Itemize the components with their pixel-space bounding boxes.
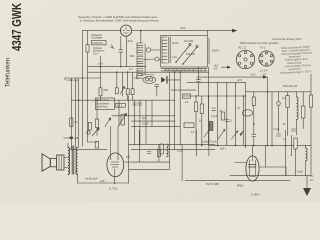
node dots bus145 [201, 145, 297, 147]
main bus y66.6 [88, 66, 147, 68]
IF transformer T1 comb c [137, 69, 144, 79]
svg-text:1 2 3 4: 1 2 3 4 [260, 69, 268, 73]
small boxed label [116, 103, 126, 107]
svg-text:+0,5: +0,5 [237, 79, 242, 82]
cap under pointer [155, 84, 159, 86]
cap C10 [277, 134, 281, 136]
svg-text:1,9A: 1,9A [172, 56, 177, 59]
wire vert x132.6 [132, 72, 134, 89]
node bus145 b [285, 145, 287, 147]
node y78 [82, 77, 84, 79]
output transformer core [72, 146, 74, 174]
wire vert x116.8 [116, 72, 118, 88]
svg-text:µ30: µ30 [74, 137, 79, 140]
svg-text:8kΩ: 8kΩ [104, 89, 109, 92]
wire vert x169.6 [169, 72, 171, 169]
wire vert x296.5 low [296, 119, 298, 135]
pot cluster arrow [92, 128, 99, 136]
right column resistor R6 [286, 96, 289, 108]
mains transformer winding [162, 37, 167, 63]
wire vert x265.3 [264, 145, 266, 167]
wire y142 [88, 141, 97, 143]
mains transformer box [161, 36, 208, 68]
svg-text:0,1µF: 0,1µF [177, 150, 184, 153]
pot P3 arrow [218, 130, 225, 139]
resistor Rc [115, 88, 118, 94]
wire vert x301 low [295, 149, 297, 176]
tube socket S1 [236, 50, 254, 68]
switch contact a [189, 43, 191, 45]
resistor R4b [200, 104, 203, 114]
capacitor C3 [138, 103, 142, 105]
dial scale ticks [165, 69, 205, 71]
svg-text:Drucktaste: Drucktaste [92, 37, 104, 40]
capacitor C1 [119, 50, 123, 52]
pot cluster circle [87, 131, 90, 134]
svg-text:niederfreq: niederfreq [97, 106, 108, 109]
wire comb to box [151, 49, 161, 51]
svg-text:4,6k: 4,6k [100, 180, 105, 183]
node dots bus96 [195, 95, 244, 97]
node x253.8 [253, 123, 255, 125]
wire vert x285.7 [285, 130, 287, 176]
pot arrow extra [105, 118, 111, 127]
wire R13 top [96, 100, 98, 119]
node bus y72.2 a [116, 71, 118, 73]
resistor Re [131, 89, 134, 95]
svg-text:VCL 11: VCL 11 [238, 47, 247, 50]
wire y149.7 [71, 149, 108, 151]
wire vert x286 low [285, 167, 287, 176]
wire vert x127.7 [127, 72, 129, 89]
cap C6 [69, 137, 73, 140]
cap on x198 [196, 80, 200, 82]
pot cluster rect [88, 123, 91, 131]
V3 internals [249, 156, 255, 177]
svg-text:U 80A: U 80A [251, 193, 259, 197]
svg-text:in Stellung: Betriebsdaten 220: in Stellung: Betriebsdaten 220V Gleichsp… [80, 18, 160, 22]
resistor R4 [194, 102, 197, 112]
pot P1 arrow [119, 113, 127, 126]
wire vert x278.5 [278, 92, 280, 133]
capacitor C8 [292, 129, 296, 131]
node bus y72.2 b [127, 71, 129, 73]
dial lamps ellipse [143, 76, 156, 83]
bus y96 [183, 95, 246, 97]
pot P2 arrow [204, 128, 211, 137]
small circle component [277, 102, 281, 106]
resistor Rb [99, 88, 102, 96]
dial scale line top [161, 68, 207, 70]
trimmer wedge tube [240, 130, 245, 136]
wire y115.8 [112, 115, 175, 117]
svg-text:Netz: Netz [180, 26, 186, 30]
wire vert x217.7 [217, 82, 219, 145]
bus y145.4 [210, 144, 311, 146]
resistor R12 [302, 106, 305, 118]
svg-text:U 72A: U 72A [109, 186, 117, 190]
slant wire comb to box [144, 59, 161, 61]
wire Rb down [100, 96, 102, 101]
wire sec bottom [77, 175, 79, 184]
boxed label b [184, 123, 194, 128]
wire y169.3 [129, 168, 170, 170]
V2 internals [110, 153, 120, 177]
bus y91.8 [246, 91, 311, 93]
wire vert x152 [151, 100, 153, 126]
right resistor R7 [309, 95, 312, 107]
svg-text:0,05µF 0,1µF: 0,05µF 0,1µF [202, 141, 217, 144]
svg-text:Gleichrichter Einweg 220V: Gleichrichter Einweg 220V [272, 38, 302, 41]
coil L2 [167, 144, 169, 157]
wire y162.1 [125, 161, 170, 163]
wire V2 top a [110, 126, 112, 153]
svg-text:Skalenlampen: Skalenlampen [141, 74, 156, 76]
resistor R11 [160, 144, 163, 154]
V2 grid dashes [111, 162, 119, 167]
wire vert x196.4 [195, 130, 197, 156]
svg-text:UKW Ant: UKW Ant [93, 42, 103, 45]
wire V2 top b [117, 126, 119, 153]
node y73.8 b [179, 71, 181, 73]
wire vert x226.8 [226, 82, 228, 145]
wire vert x128.6 [128, 96, 130, 183]
speaker magnet [57, 155, 64, 170]
wire vert x146 [145, 100, 147, 144]
switch contact b [196, 45, 198, 47]
svg-text:0,1µF: 0,1µF [274, 129, 281, 131]
wire vert x208.6 [208, 96, 210, 145]
junction transformer top [207, 31, 209, 35]
node y91.8 [267, 91, 269, 93]
node y100 b [96, 99, 98, 101]
svg-text:Telefunken: Telefunken [5, 58, 11, 87]
svg-text:VY 2: VY 2 [260, 47, 266, 50]
svg-text:PHT0,7HB: PHT0,7HB [206, 182, 219, 186]
dial scale line bottom [161, 70, 207, 72]
wire y85.5 [187, 81, 246, 83]
svg-text:0,1µF: 0,1µF [297, 172, 304, 174]
svg-text:5µF +: 5µF + [220, 148, 227, 151]
svg-text:Netztr: Netztr [172, 42, 178, 45]
wire Re down [132, 95, 134, 101]
wire vert x207 [208, 67, 210, 145]
bottom bus left [78, 182, 129, 184]
wire vert x122.3 [121, 72, 123, 96]
wire vert x267.5 [267, 77, 269, 145]
wire vert x78.6 [78, 78, 80, 148]
hatched resistor b [221, 112, 224, 120]
wire vert x235.6 [235, 82, 237, 145]
wire vert x112 [111, 45, 115, 49]
wire top bus right [132, 30, 233, 32]
wire vert x243.5 [243, 96, 245, 145]
svg-text:Skala und Beleuchtung gem 20: Skala und Beleuchtung gem 20 [165, 68, 196, 71]
wire vert x196 [195, 96, 197, 145]
wire vert x139.9 [139, 100, 141, 145]
wire vert x201.8 [201, 96, 203, 145]
right resistor R8 [294, 138, 297, 149]
wire vert x120.8 [120, 36, 122, 66]
wire comb top [140, 31, 142, 43]
wire L3 bottom [305, 161, 307, 176]
wire y90 seg [171, 89, 196, 91]
svg-text:150 220: 150 220 [186, 53, 196, 56]
svg-text:220V~: 220V~ [212, 49, 221, 53]
wire vert x182.1 [181, 144, 183, 180]
wire y126.3 [131, 125, 180, 127]
wire vert x119 [118, 100, 120, 126]
V3 anode bars [249, 165, 257, 168]
note box mid-left [96, 98, 115, 110]
wire vert x82.5 [82, 31, 84, 146]
svg-text:Ctrl 3: Ctrl 3 [117, 104, 123, 107]
node y100 a [78, 99, 80, 101]
wire R13 bottom [96, 128, 98, 136]
right column cap C5 [252, 134, 256, 136]
svg-text:7AK: 7AK [129, 54, 134, 58]
pot P1 body [121, 115, 124, 126]
svg-text:0,1µF: 0,1µF [142, 122, 149, 126]
dial lamp 2 [150, 78, 153, 81]
output tube V2 [107, 153, 124, 177]
tube socket S2 [259, 51, 274, 66]
wire vert x180.2 [179, 72, 181, 145]
ground stem [306, 176, 308, 188]
IF transformer core [144, 44, 146, 75]
wire vert x245.6 [245, 82, 247, 148]
wire vert x293.5 [287, 92, 289, 96]
speaker coil box [50, 159, 56, 167]
svg-text:1,5kΩ geg: 1,5kΩ geg [67, 79, 79, 82]
wire Ra down [87, 52, 89, 142]
right column coil L1 [297, 97, 299, 119]
switch pivots [176, 62, 183, 64]
svg-text:110 125: 110 125 [184, 40, 193, 43]
wire pointer right [168, 79, 180, 81]
IF transformer T1 comb a [137, 43, 143, 55]
node bus y66.6 a [100, 66, 102, 68]
node y73.8 a [174, 71, 176, 73]
right rail x311 [310, 74, 312, 176]
output transformer secondary [76, 148, 78, 175]
trimmer circle [146, 48, 150, 52]
wire V2 bottom [114, 177, 116, 183]
output transformer primary [68, 148, 70, 175]
label box antenna [92, 40, 107, 45]
wire y73.8 [88, 71, 210, 73]
wire vert x303 [302, 92, 304, 106]
node tubeA bottom [114, 182, 116, 184]
wire top bus left [83, 30, 121, 32]
wire speaker top [67, 143, 69, 148]
resistor R13 [95, 119, 98, 128]
mains transformer core [169, 37, 170, 63]
node comb top [140, 30, 142, 32]
arrow line right of box [222, 66, 228, 68]
wire y77 pointer [197, 76, 264, 78]
wire vert x139.3 [138, 130, 140, 162]
resistor R2 [70, 118, 73, 127]
IF transformer T1 comb b [137, 57, 143, 67]
wire vert x100.5 [100, 56, 102, 88]
wire V3 right [185, 180, 290, 182]
svg-text:+0,5: +0,5 [214, 66, 219, 68]
wire vert x296.5 [296, 92, 298, 97]
pot arrow left [120, 87, 124, 94]
speaker magnet lines [59, 155, 62, 170]
wire V3 right upper [259, 166, 286, 168]
cap C7 [147, 152, 151, 154]
socket S1 pins [238, 51, 252, 67]
wire vert x134.7 [134, 100, 136, 145]
trimmer arrow c [232, 132, 238, 140]
wire vert x158.9 [158, 144, 160, 162]
wire vert x126.3 [125, 36, 127, 66]
misc small labels mid band [185, 102, 241, 134]
svg-text:0Ρ0Η: 0Ρ0Η [237, 185, 243, 188]
hatched resistor a [209, 122, 213, 131]
wire vert x70.5 [70, 78, 72, 150]
speaker wires [64, 158, 68, 168]
svg-text:0,7: 0,7 [129, 67, 133, 71]
wire vert x253.8 [253, 92, 255, 146]
wire Rd down [127, 95, 129, 101]
svg-text:Röhrensockel von unten gesehen: Röhrensockel von unten gesehen [240, 41, 279, 45]
node bus y66.6 b [120, 66, 122, 68]
svg-text:0,1µ: 0,1µ [134, 77, 139, 80]
resistor Ra [86, 45, 89, 53]
svg-text:0,1µF: 0,1µF [211, 115, 218, 118]
svg-text:Ph0,1Ω+1Ω: Ph0,1Ω+1Ω [283, 84, 297, 88]
voltage selector switch [176, 45, 197, 64]
wire y121.1 [131, 120, 175, 122]
dial lamp 1 [145, 78, 148, 81]
bus y175.7 [230, 175, 311, 177]
tube V1 electrodes [123, 27, 130, 33]
resistor R10 [157, 150, 160, 157]
wire vert x303 low [302, 118, 304, 129]
resistor Rd [126, 89, 129, 95]
wire vert x272 [271, 92, 273, 146]
wire V3 top [252, 145, 254, 156]
svg-text:4347 GWK: 4347 GWK [10, 3, 24, 51]
coil oval [243, 110, 253, 116]
wire vert x174.7 [174, 72, 176, 150]
wire vert x156.8 [156, 86, 158, 96]
wire y100.2 [71, 99, 175, 101]
tube V1 circle [120, 25, 131, 36]
svg-text:+27: +27 [262, 73, 267, 77]
capacitor C4 [212, 108, 216, 110]
svg-text:ZAA: ZAA [128, 39, 133, 43]
right notes block [279, 44, 314, 74]
trimmer circle 2 [155, 57, 159, 61]
wire vert x293.5 low [288, 108, 292, 156]
node bus145 a [245, 145, 247, 147]
wire vert x87.5 [87, 31, 89, 45]
bottom bus right [235, 162, 246, 164]
svg-text:mit Bd,2µF: mit Bd,2µF [85, 177, 98, 181]
wire vert x207.9 upper [197, 67, 199, 96]
coil L3 [306, 148, 308, 161]
resistor R3 boxed [183, 94, 191, 98]
arrow top bus end [232, 29, 238, 33]
rectifier tube V3 [246, 156, 259, 181]
wire y135.5 [64, 137, 72, 139]
bus y78 left [65, 77, 101, 79]
socket S2 pins [261, 52, 273, 65]
svg-text:+0,5: +0,5 [250, 73, 256, 77]
dial pointer arrow [161, 77, 166, 83]
capacitor C2 [133, 103, 137, 105]
wire y149.6 [131, 149, 215, 151]
wire vert x75.4 [74, 78, 76, 148]
plus marks [310, 176, 313, 180]
svg-text:6,3 V: 6,3 V [93, 52, 99, 55]
ground arrow [303, 188, 311, 196]
right column resistor R5 [252, 97, 255, 106]
bus y78 start tick [64, 78, 66, 80]
resistor R9 [95, 142, 99, 149]
wire L3 top [305, 145, 307, 148]
wire vert x208.9 [208, 130, 210, 156]
dial pointer bar [166, 76, 167, 83]
speaker cone [42, 154, 50, 171]
bus y144.3 [129, 143, 215, 145]
arrow y77 [263, 75, 268, 78]
cap bars extra [225, 120, 229, 122]
